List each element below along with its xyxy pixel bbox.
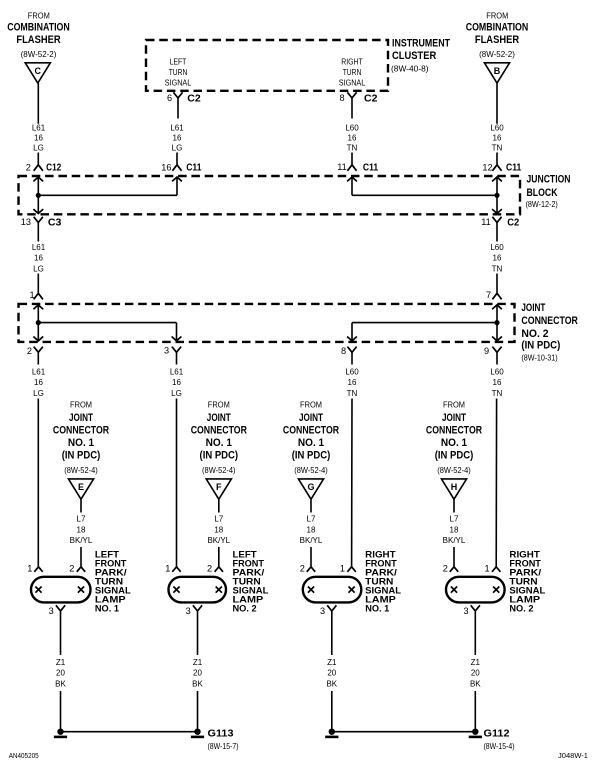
- ground (lamp 3): [325, 729, 338, 739]
- svg-text:L7: L7: [214, 515, 223, 524]
- wire label L60 16 TN (drop wire 4): [490, 368, 504, 398]
- wire label L61 16 LG (mid wire 1): [32, 243, 46, 273]
- svg-text:FROM: FROM: [70, 401, 92, 410]
- label: sheet number J048W-1: [558, 753, 588, 760]
- svg-text:Z1: Z1: [327, 658, 337, 667]
- svg-text:COMBINATION: COMBINATION: [466, 22, 529, 34]
- label: INSTRUMENT CLUSTER (8W-40-8): [391, 38, 450, 74]
- label: lamp 4 (right front park/turn signal lamp no.2) name: [509, 549, 545, 613]
- wire: cluster pin 8 to C11 (upper): [351, 98, 353, 165]
- svg-text:16: 16: [493, 134, 502, 143]
- svg-text:TN: TN: [492, 264, 503, 273]
- joint connector no.2 box: [19, 304, 515, 342]
- svg-text:FROM: FROM: [28, 11, 50, 20]
- connector C11 pin 12 (junction block top): [482, 162, 521, 182]
- svg-text:FLASHER: FLASHER: [475, 34, 519, 46]
- lamp 3 (right front park/turn signal lamp no.1) pin 1 (right top): [340, 564, 356, 574]
- off-page connector E (from joint connector no.1): [68, 479, 93, 499]
- svg-text:BK: BK: [326, 679, 337, 688]
- svg-text:BK/YL: BK/YL: [443, 536, 466, 545]
- lamp 1 (left front park/turn signal lamp no.1) pin 1 (left top): [27, 564, 42, 574]
- svg-text:BK/YL: BK/YL: [70, 536, 93, 545]
- svg-text:C2: C2: [364, 93, 378, 105]
- svg-text:18: 18: [450, 525, 459, 534]
- off-page connector C (from combination flasher): [25, 63, 50, 83]
- svg-text:L61: L61: [32, 243, 46, 252]
- svg-text:Z1: Z1: [56, 658, 66, 667]
- svg-text:TN: TN: [347, 143, 358, 152]
- wire: joint connector internal right horizontal: [352, 323, 497, 341]
- connector: joint connector no.2 pin 8 (bottom): [341, 337, 357, 357]
- svg-text:LG: LG: [171, 389, 182, 398]
- svg-text:L60: L60: [490, 368, 504, 377]
- svg-text:(8W-52-4): (8W-52-4): [202, 466, 236, 475]
- svg-text:C11: C11: [506, 162, 521, 174]
- wire label L60 16 TN (drop wire 3): [345, 368, 359, 398]
- wire label Z1 20 BK (lamp 3 (right front park/turn signal lamp no.1)): [326, 658, 337, 688]
- svg-text:12: 12: [482, 163, 492, 173]
- svg-text:CONNECTOR: CONNECTOR: [191, 425, 247, 437]
- svg-text:3: 3: [49, 606, 54, 616]
- ground (lamp 1): [54, 729, 67, 739]
- wire: lamp 1 (left front park/turn signal lamp no.1) pin 3 to ground: [60, 611, 62, 729]
- svg-text:Z1: Z1: [471, 658, 481, 667]
- off-page connector B (from combination flasher): [484, 63, 509, 83]
- svg-text:(8W-10-31): (8W-10-31): [521, 354, 558, 363]
- wire: junction block internal left horizontal: [38, 177, 177, 195]
- svg-text:L61: L61: [32, 368, 46, 377]
- svg-text:NO. 2: NO. 2: [509, 603, 533, 613]
- svg-text:20: 20: [471, 669, 480, 678]
- svg-text:1: 1: [165, 564, 170, 574]
- svg-text:C11: C11: [186, 162, 201, 174]
- label: JUNCTION BLOCK (8W-12-2): [526, 173, 571, 209]
- svg-text:16: 16: [161, 162, 171, 172]
- svg-text:13: 13: [21, 217, 31, 227]
- svg-text:2: 2: [207, 564, 212, 574]
- lamp 2 (left front park/turn signal lamp no.2) pin 3 (bottom): [186, 605, 202, 616]
- svg-text:(IN PDC): (IN PDC): [435, 450, 474, 462]
- svg-text:(8W-52-2): (8W-52-2): [21, 50, 57, 59]
- node: joint connector right junction dot: [494, 320, 499, 325]
- junction block box: [19, 176, 521, 214]
- svg-text:J048W-1: J048W-1: [558, 753, 588, 760]
- connector C2 pin 8 (cluster right output): [339, 92, 377, 104]
- svg-text:16: 16: [493, 378, 502, 387]
- off-page connector F (from joint connector no.1): [206, 479, 231, 499]
- wire label L7 18 BK/YL (branch E): [70, 515, 93, 545]
- wire label L61 16 LG (top wire 2): [170, 124, 184, 153]
- lamp 4 (right front park/turn signal lamp no.2) pin 3 (bottom): [463, 605, 479, 616]
- svg-text:C2: C2: [187, 93, 201, 105]
- connector C12 pin 2 (junction block top): [26, 162, 62, 182]
- svg-text:(8W-40-8): (8W-40-8): [391, 64, 429, 73]
- wire: junction block internal left vertical: [37, 177, 39, 214]
- svg-text:LG: LG: [172, 144, 183, 153]
- svg-text:NO. 2: NO. 2: [233, 603, 257, 613]
- wire: triangle F to lamp: [218, 499, 220, 567]
- wire label Z1 20 BK (lamp 4 (right front park/turn signal lamp no.2)): [470, 658, 481, 688]
- svg-text:JOINT: JOINT: [299, 412, 323, 424]
- node: joint connector left junction dot: [36, 320, 41, 325]
- svg-text:NO. 1: NO. 1: [68, 437, 94, 449]
- svg-text:BK/YL: BK/YL: [207, 536, 230, 545]
- svg-text:LG: LG: [33, 264, 44, 273]
- svg-text:B: B: [494, 66, 501, 76]
- connector C11 pin 11 (junction block top): [337, 161, 378, 181]
- wire: right ground bus: [332, 731, 476, 733]
- svg-text:COMBINATION: COMBINATION: [7, 22, 70, 34]
- wire label L60 16 TN (mid wire 4): [490, 243, 504, 273]
- connector: joint connector no.2 pin 1 (top): [29, 290, 43, 309]
- svg-text:3: 3: [186, 606, 191, 616]
- svg-text:(IN PDC): (IN PDC): [521, 340, 560, 352]
- svg-text:16: 16: [34, 254, 43, 263]
- svg-text:(8W-52-4): (8W-52-4): [294, 466, 328, 475]
- connector C3 pin 13 (junction block bottom): [21, 209, 62, 228]
- wire: left ground bus: [61, 731, 198, 733]
- instrument cluster box: [146, 40, 388, 91]
- svg-text:L61: L61: [32, 124, 46, 133]
- connector C2 pin 11 (junction block bottom): [481, 209, 519, 228]
- lamp 4 (right front park/turn signal lamp no.2) body: [446, 577, 505, 603]
- svg-text:L61: L61: [170, 124, 184, 133]
- label: FROM COMBINATION FLASHER (right): [466, 11, 529, 59]
- svg-text:C12: C12: [46, 162, 61, 174]
- svg-text:L60: L60: [345, 123, 359, 132]
- svg-text:18: 18: [77, 525, 86, 534]
- wire: C2 to joint connector pin 7: [496, 223, 498, 294]
- svg-text:1: 1: [29, 290, 34, 300]
- lamp 3 (right front park/turn signal lamp no.1) pin 2 (left top): [300, 564, 315, 574]
- svg-text:(IN PDC): (IN PDC): [292, 450, 331, 462]
- wire: pin 2 to lamp 1 pin 1: [37, 352, 39, 567]
- lamp 2 (left front park/turn signal lamp no.2) body: [169, 577, 227, 603]
- svg-text:2: 2: [27, 346, 32, 356]
- svg-text:(8W-52-4): (8W-52-4): [437, 466, 471, 475]
- svg-text:C3: C3: [48, 216, 62, 228]
- wire: pin 3 to lamp 2 pin 1: [176, 352, 178, 567]
- svg-text:L7: L7: [307, 515, 316, 524]
- svg-text:L61: L61: [170, 368, 184, 377]
- svg-text:NO. 1: NO. 1: [95, 603, 119, 613]
- svg-text:FROM: FROM: [300, 401, 322, 410]
- wire: pin 9 to lamp 4 pin 1: [495, 352, 498, 567]
- svg-text:C11: C11: [363, 161, 378, 173]
- svg-text:3: 3: [320, 606, 325, 616]
- node: junction block right junction dot: [494, 193, 499, 198]
- svg-text:Z1: Z1: [193, 658, 203, 667]
- svg-text:L60: L60: [490, 124, 504, 133]
- svg-text:CONNECTOR: CONNECTOR: [521, 315, 578, 327]
- svg-text:NO. 1: NO. 1: [441, 437, 467, 449]
- wire: joint connector internal left horizontal: [38, 323, 176, 341]
- svg-text:FLASHER: FLASHER: [16, 34, 60, 46]
- svg-text:1: 1: [27, 564, 32, 574]
- svg-text:1: 1: [484, 564, 489, 574]
- svg-text:16: 16: [34, 134, 43, 143]
- wire: cluster pin 6 to C11 (upper): [177, 98, 178, 165]
- svg-text:L60: L60: [490, 243, 504, 252]
- svg-text:16: 16: [348, 378, 357, 387]
- svg-text:G: G: [307, 482, 314, 492]
- svg-text:JOINT: JOINT: [442, 412, 466, 424]
- ground G113: [191, 728, 239, 751]
- svg-text:L7: L7: [77, 515, 86, 524]
- svg-text:18: 18: [307, 525, 316, 534]
- wire: triangle H to lamp: [453, 499, 455, 567]
- svg-text:6: 6: [167, 93, 172, 103]
- svg-text:3: 3: [463, 606, 468, 616]
- label: FROM JOINT CONNECTOR NO. 1 (IN PDC) (8W-52-4) branch F: [191, 401, 247, 475]
- svg-text:FROM: FROM: [486, 11, 508, 20]
- wire label L60 16 TN (top wire 4): [490, 124, 504, 153]
- svg-text:20: 20: [327, 669, 336, 678]
- svg-text:16: 16: [493, 254, 502, 263]
- svg-text:L60: L60: [345, 368, 359, 377]
- label: FROM COMBINATION FLASHER (left): [7, 11, 70, 59]
- off-page connector H (from joint connector no.1): [441, 479, 466, 499]
- wire: junction block internal right horizontal: [352, 177, 497, 195]
- wire: lamp 2 (left front park/turn signal lamp no.2) pin 3 to ground: [197, 611, 199, 729]
- svg-text:RIGHT: RIGHT: [341, 58, 363, 67]
- label: LEFT TURN SIGNAL: [165, 58, 192, 88]
- svg-text:BK: BK: [470, 679, 481, 688]
- wire label Z1 20 BK (lamp 2 (left front park/turn signal lamp no.2)): [192, 658, 203, 688]
- svg-text:TURN: TURN: [343, 68, 362, 77]
- wire label L7 18 BK/YL (branch G): [300, 515, 323, 545]
- wire: triangle B to C11 (upper): [496, 83, 498, 165]
- ground G112: [469, 728, 515, 751]
- lamp 4 (right front park/turn signal lamp no.2) pin 1 (right top): [484, 564, 500, 574]
- lamp 2 (left front park/turn signal lamp no.2) pin 1 (left top): [165, 564, 180, 574]
- lamp 1 (left front park/turn signal lamp no.1) pin 3 (bottom): [49, 605, 65, 616]
- wire label L61 16 LG (drop wire 1): [32, 368, 46, 398]
- svg-text:CONNECTOR: CONNECTOR: [53, 425, 109, 437]
- svg-text:TURN: TURN: [169, 68, 188, 77]
- svg-text:3: 3: [164, 346, 169, 356]
- svg-text:NO. 1: NO. 1: [365, 603, 389, 613]
- svg-text:(IN PDC): (IN PDC): [200, 450, 239, 462]
- wire label L60 16 TN (top wire 3): [345, 123, 359, 152]
- svg-text:CLUSTER: CLUSTER: [392, 50, 436, 62]
- svg-text:(8W-15-7): (8W-15-7): [208, 742, 239, 751]
- svg-text:SIGNAL: SIGNAL: [165, 79, 192, 88]
- svg-text:TN: TN: [492, 389, 503, 398]
- svg-text:E: E: [78, 482, 84, 492]
- svg-text:SIGNAL: SIGNAL: [339, 79, 366, 88]
- wire: joint connector internal right vertical: [496, 305, 498, 341]
- svg-text:H: H: [451, 482, 458, 492]
- svg-text:BLOCK: BLOCK: [527, 187, 558, 199]
- svg-text:11: 11: [481, 217, 491, 227]
- svg-text:20: 20: [56, 669, 65, 678]
- svg-text:G113: G113: [208, 728, 234, 740]
- svg-text:LG: LG: [33, 389, 44, 398]
- svg-text:C: C: [35, 66, 42, 76]
- svg-text:C2: C2: [507, 216, 519, 228]
- off-page connector G (from joint connector no.1): [298, 479, 323, 499]
- svg-text:(8W-15-4): (8W-15-4): [484, 742, 515, 751]
- label: lamp 1 (left front park/turn signal lamp no.1) name: [95, 549, 131, 613]
- connector C2 pin 6 (cluster left output): [167, 92, 201, 104]
- svg-text:20: 20: [193, 669, 202, 678]
- wire: triangle E to lamp: [80, 499, 82, 567]
- lamp 3 (right front park/turn signal lamp no.1) pin 3 (bottom): [320, 605, 336, 616]
- lamp 1 (left front park/turn signal lamp no.1) pin 2 (right top): [69, 564, 85, 574]
- svg-text:9: 9: [484, 346, 489, 356]
- svg-text:JUNCTION: JUNCTION: [527, 173, 571, 185]
- svg-text:L7: L7: [450, 515, 459, 524]
- svg-text:16: 16: [348, 134, 357, 143]
- svg-text:LG: LG: [33, 144, 44, 153]
- wire: junction block internal right vertical: [496, 177, 498, 214]
- svg-text:16: 16: [172, 378, 181, 387]
- svg-text:TN: TN: [492, 144, 503, 153]
- wire: triangle C to C12 (upper): [37, 83, 39, 165]
- svg-text:CONNECTOR: CONNECTOR: [283, 425, 339, 437]
- svg-text:BK: BK: [192, 679, 203, 688]
- label: RIGHT TURN SIGNAL: [339, 58, 366, 88]
- label: JOINT CONNECTOR NO. 2 (IN PDC) (8W-10-31): [521, 302, 578, 363]
- wire label L7 18 BK/YL (branch H): [443, 515, 466, 545]
- svg-text:2: 2: [443, 564, 448, 574]
- svg-text:(8W-52-2): (8W-52-2): [479, 50, 515, 59]
- wire label L7 18 BK/YL (branch F): [207, 515, 230, 545]
- lamp 2 (left front park/turn signal lamp no.2) pin 2 (right top): [207, 564, 223, 574]
- svg-text:FROM: FROM: [208, 401, 230, 410]
- wire: pin 8 to lamp 3 pin 1: [351, 352, 353, 567]
- svg-text:18: 18: [214, 525, 223, 534]
- lamp 1 (left front park/turn signal lamp no.1) body: [31, 577, 91, 603]
- svg-text:7: 7: [486, 290, 491, 300]
- svg-text:(8W-52-4): (8W-52-4): [64, 466, 98, 475]
- label: FROM JOINT CONNECTOR NO. 1 (IN PDC) (8W-52-4) branch E: [53, 401, 109, 475]
- connector: joint connector no.2 pin 9 (bottom): [484, 337, 502, 357]
- svg-text:(IN PDC): (IN PDC): [62, 450, 101, 462]
- svg-text:NO. 2: NO. 2: [521, 328, 548, 340]
- svg-text:16: 16: [34, 378, 43, 387]
- svg-text:BK: BK: [55, 679, 66, 688]
- svg-text:(8W-12-2): (8W-12-2): [526, 200, 559, 209]
- label: FROM JOINT CONNECTOR NO. 1 (IN PDC) (8W-52-4) branch H: [426, 401, 482, 475]
- label: FROM JOINT CONNECTOR NO. 1 (IN PDC) (8W-52-4) branch G: [283, 401, 339, 475]
- wire: lamp 3 (right front park/turn signal lamp no.1) pin 3 to ground: [331, 611, 333, 729]
- wire label Z1 20 BK (lamp 1 (left front park/turn signal lamp no.1)): [55, 658, 66, 688]
- node: junction block left junction dot: [36, 193, 41, 198]
- label: lamp 3 (right front park/turn signal lamp no.1) name: [365, 549, 401, 613]
- connector: joint connector no.2 pin 3 (bottom): [164, 337, 181, 356]
- svg-text:INSTRUMENT: INSTRUMENT: [392, 38, 450, 50]
- svg-text:LEFT: LEFT: [170, 58, 187, 67]
- svg-text:16: 16: [173, 134, 182, 143]
- svg-text:G112: G112: [484, 728, 510, 740]
- connector: joint connector no.2 pin 2 (bottom): [27, 337, 43, 357]
- svg-text:NO. 1: NO. 1: [206, 437, 232, 449]
- wire label L61 16 LG (top wire 1): [32, 124, 46, 153]
- svg-text:11: 11: [337, 162, 347, 172]
- svg-text:JOINT: JOINT: [521, 302, 545, 314]
- svg-text:CONNECTOR: CONNECTOR: [426, 425, 482, 437]
- wire: triangle G to lamp: [310, 499, 312, 567]
- svg-text:2: 2: [69, 564, 74, 574]
- svg-text:BK/YL: BK/YL: [300, 536, 323, 545]
- svg-text:8: 8: [339, 93, 344, 103]
- svg-text:JOINT: JOINT: [207, 412, 231, 424]
- lamp 4 (right front park/turn signal lamp no.2) pin 2 (left top): [443, 564, 458, 574]
- wire: lamp 4 (right front park/turn signal lamp no.2) pin 3 to ground: [474, 611, 476, 729]
- label: drawing number AN405205: [9, 753, 39, 760]
- svg-text:AN405205: AN405205: [9, 753, 39, 760]
- svg-text:8: 8: [341, 346, 346, 356]
- svg-text:F: F: [216, 482, 222, 492]
- svg-text:TN: TN: [347, 389, 358, 398]
- wire: C3 to joint connector pin 1: [37, 223, 39, 294]
- wire: joint connector internal left vertical: [37, 305, 39, 341]
- connector C11 pin 16 (junction block top): [161, 162, 201, 182]
- svg-text:2: 2: [26, 162, 31, 172]
- svg-text:NO. 1: NO. 1: [298, 437, 324, 449]
- svg-text:2: 2: [300, 564, 305, 574]
- svg-text:FROM: FROM: [443, 401, 465, 410]
- wire label L61 16 LG (drop wire 2): [170, 368, 184, 398]
- label: lamp 2 (left front park/turn signal lamp no.2) name: [233, 549, 269, 613]
- connector: joint connector no.2 pin 7 (top): [486, 290, 502, 309]
- svg-text:1: 1: [340, 564, 345, 574]
- lamp 3 (right front park/turn signal lamp no.1) body: [303, 577, 362, 603]
- svg-text:JOINT: JOINT: [69, 412, 93, 424]
